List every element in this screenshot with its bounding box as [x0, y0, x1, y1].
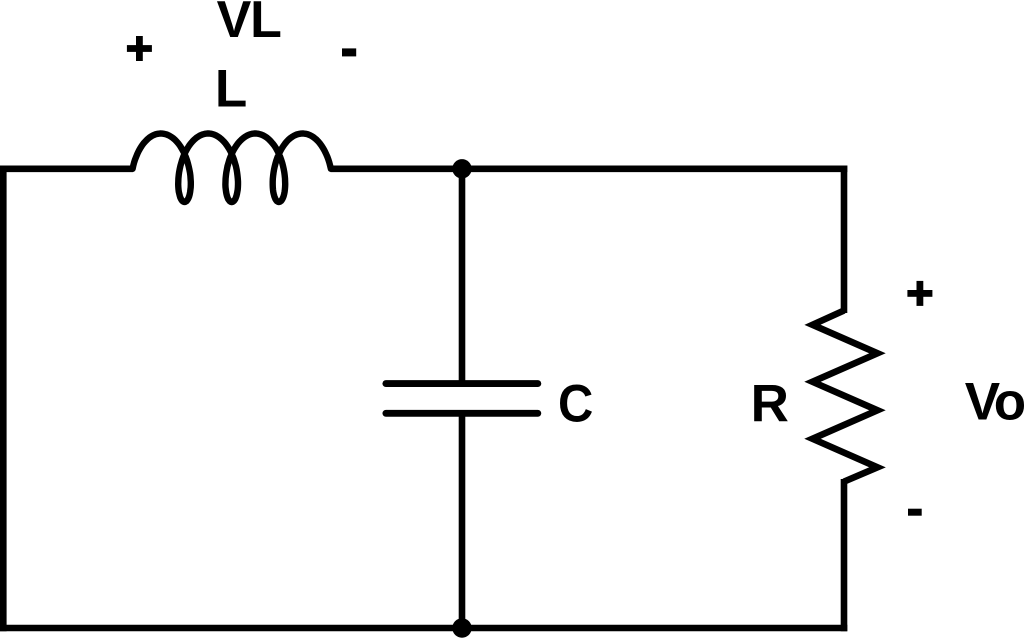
wire top-left segment: [0, 166, 133, 173]
label + (output polarity): [907, 281, 932, 306]
svg-text:VL: VL: [217, 0, 281, 49]
label - (inductor right polarity): [342, 48, 356, 56]
wire left side: [0, 166, 7, 632]
wire middle vertical lower (capacitor to bottom node): [459, 413, 466, 628]
wire right side upper: [841, 166, 848, 314]
node junction top (dot): [452, 159, 471, 178]
resistor R zigzag: [813, 311, 878, 482]
wire bottom: [0, 625, 847, 632]
inductor L coil: [133, 134, 331, 203]
svg-text:Vo: Vo: [965, 372, 1024, 431]
capacitor C bottom plate: [386, 410, 538, 417]
wire middle vertical upper (node to capacitor): [459, 169, 466, 384]
svg-text:C: C: [558, 375, 593, 434]
svg-text:R: R: [751, 375, 789, 434]
label - (output polarity): [908, 509, 922, 516]
wire top-middle segment: [331, 166, 848, 173]
label + (inductor left polarity): [127, 36, 152, 61]
capacitor C top plate: [386, 380, 538, 387]
node junction bottom (dot): [452, 618, 471, 637]
wire right side lower: [841, 479, 848, 631]
svg-text:L: L: [215, 60, 247, 119]
